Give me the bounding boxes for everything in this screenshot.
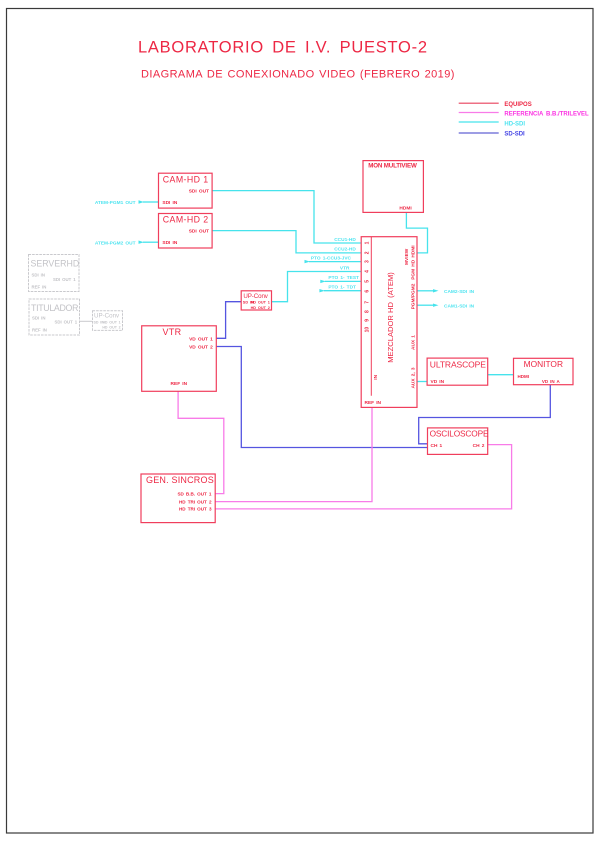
wire HD-SDI PTO 1-CCU3-JVC to ATEM input 3: [305, 255, 362, 263]
svg-text:PTO 1- TDT: PTO 1- TDT: [328, 285, 356, 291]
svg-text:REF IN: REF IN: [365, 400, 382, 406]
svg-text:VD IN A: VD IN A: [542, 379, 561, 384]
svg-text:5: 5: [365, 280, 371, 283]
svg-text:AUX 2, 3: AUX 2, 3: [411, 367, 417, 388]
svg-text:7: 7: [365, 301, 371, 304]
svg-text:HD OUT 1: HD OUT 1: [251, 301, 270, 305]
svg-text:CH 1: CH 1: [431, 443, 443, 449]
svg-text:MVIEW: MVIEW: [404, 248, 410, 265]
equipment MEZCLADOR HD (ATEM): [361, 237, 417, 408]
svg-text:VD IN: VD IN: [431, 379, 445, 385]
svg-text:VD OUT 1: VD OUT 1: [189, 336, 213, 342]
svg-text:CAM-HD 2: CAM-HD 2: [163, 215, 209, 225]
wire HD-SDI ULTRASCOPE to MONITOR HDMI: [488, 374, 514, 376]
equipment CAM-HD 2: [159, 214, 213, 249]
svg-text:ULTRASCOPE: ULTRASCOPE: [430, 360, 486, 370]
wire HD-SDI PTO 1- TEST to ATEM input 5: [320, 275, 361, 283]
wire HD-SDI ATEM PGM to CAM2-SDI IN: [417, 289, 475, 295]
svg-text:HDMI: HDMI: [518, 374, 530, 379]
svg-text:PGM/PGM2: PGM/PGM2: [411, 283, 417, 309]
svg-text:MONITOR: MONITOR: [524, 359, 563, 369]
svg-text:REF IN: REF IN: [32, 327, 47, 332]
wire HD-SDI ATEM PGM2 to CAM1-SDI IN: [417, 303, 475, 309]
equipment UP-Conv (red): [241, 291, 271, 310]
equipment ULTRASCOPE: [427, 358, 488, 385]
svg-text:HD OUT 1: HD OUT 1: [102, 320, 120, 324]
wire SD-SDI VTR VD OUT 1 to UP-Conv SD IN: [216, 302, 241, 339]
svg-text:UP-Conv: UP-Conv: [243, 293, 268, 300]
equipment TITULADOR (unused, gray): [29, 299, 80, 335]
svg-text:EQUIPOS: EQUIPOS: [504, 102, 531, 108]
svg-text:CH 2: CH 2: [473, 443, 485, 449]
wire HD-SDI ATEM PGM HD HDMI to MON MULTIVIEW HDMI: [406, 212, 427, 253]
svg-text:VTR: VTR: [340, 265, 350, 271]
wire HD-SDI CAM1 SDI OUT to ATEM input 1: [212, 191, 361, 243]
svg-text:ATEM-PGM1 OUT: ATEM-PGM1 OUT: [95, 200, 136, 206]
equipment MONITOR: [514, 358, 574, 384]
svg-text:DIAGRAMA DE CONEXIONADO VIDEO: DIAGRAMA DE CONEXIONADO VIDEO (FEBRERO 2…: [141, 68, 455, 80]
svg-text:3: 3: [365, 260, 371, 263]
equipment VTR: [142, 326, 217, 392]
svg-text:SERVERHD: SERVERHD: [31, 259, 80, 269]
svg-text:4: 4: [365, 270, 371, 273]
svg-text:8: 8: [365, 310, 371, 313]
svg-text:CCU1-HD: CCU1-HD: [334, 237, 356, 243]
wire gray TITULADOR SDI OUT 1 to UP-Conv SD IN: [80, 320, 93, 322]
svg-text:VD OUT 2: VD OUT 2: [189, 345, 213, 351]
equipment GEN. SINCROS: [141, 474, 215, 523]
svg-text:2: 2: [365, 251, 371, 254]
wire SD-SDI VTR VD OUT 2 to OSCILOSCOPE CH 1: [216, 347, 427, 448]
svg-text:REF IN: REF IN: [171, 381, 188, 387]
svg-text:REF IN: REF IN: [32, 284, 47, 289]
equipment SERVERHD (unused, gray): [29, 255, 80, 292]
svg-text:UP-Conv: UP-Conv: [94, 313, 120, 320]
wire REFERENCIA GEN.SINCROS HD TRI OUT 3 to OSCILOSCOPE CH 2: [215, 445, 511, 509]
equipment OSCILOSCOPE: [428, 428, 489, 455]
svg-text:SDI IN: SDI IN: [32, 316, 45, 321]
equipment UP-Conv (unused, gray): [93, 311, 123, 331]
svg-text:SDI IN: SDI IN: [162, 200, 177, 206]
svg-text:HD OUT 2: HD OUT 2: [102, 326, 120, 330]
svg-text:LABORATORIO DE I.V. PUESTO-2: LABORATORIO DE I.V. PUESTO-2: [138, 39, 428, 57]
svg-text:HD OUT 2: HD OUT 2: [251, 306, 270, 310]
svg-text:MEZCLADOR HD (ATEM): MEZCLADOR HD (ATEM): [386, 272, 395, 363]
svg-text:CAM-HD 1: CAM-HD 1: [163, 175, 209, 185]
svg-text:CAM2-SDI IN: CAM2-SDI IN: [444, 289, 475, 295]
svg-text:PTO 1- TEST: PTO 1- TEST: [328, 275, 359, 281]
svg-text:VTR: VTR: [163, 327, 182, 337]
svg-text:CAM1-SDI IN: CAM1-SDI IN: [444, 303, 475, 309]
wire HD-SDI ATEM-PGM2 OUT into CAM2 SDI IN: [95, 240, 159, 246]
svg-text:1: 1: [365, 241, 371, 244]
equipment MON MULTIVIEW: [363, 161, 423, 213]
wire REFERENCIA GEN.SINCROS SD B.B. OUT 1 to VTR REF IN: [178, 391, 224, 493]
legend HD-SDI: [459, 121, 526, 127]
wire HD-SDI UP-Conv HD OUT 1 to ATEM input 4 (VTR): [272, 265, 362, 301]
equipment CAM-HD 1: [159, 173, 213, 208]
svg-text:SD B.B. OUT 1: SD B.B. OUT 1: [177, 492, 211, 497]
svg-text:ATEM-PGM2 OUT: ATEM-PGM2 OUT: [95, 240, 136, 246]
svg-text:PTO 1-CCU3-JVC: PTO 1-CCU3-JVC: [311, 255, 352, 261]
svg-text:OSCILOSCOPE: OSCILOSCOPE: [430, 429, 489, 439]
svg-text:SDI OUT 1: SDI OUT 1: [53, 277, 76, 282]
svg-text:TITULADOR: TITULADOR: [31, 303, 78, 313]
svg-text:REFERENCIA B.B./TRILEVEL: REFERENCIA B.B./TRILEVEL: [504, 112, 589, 118]
svg-text:HD TRI OUT 3: HD TRI OUT 3: [179, 507, 212, 512]
svg-text:IN: IN: [373, 374, 379, 379]
wire HD-SDI PTO 1- TDT to ATEM input 6: [319, 285, 361, 293]
svg-text:MON MULTIVIEW: MON MULTIVIEW: [368, 163, 417, 170]
legend EQUIPOS: [459, 102, 532, 108]
svg-text:SDI OUT: SDI OUT: [189, 189, 209, 195]
svg-text:SDI IN: SDI IN: [162, 240, 177, 246]
svg-text:CCU2-HD: CCU2-HD: [334, 246, 356, 252]
wire REFERENCIA GEN.SINCROS HD TRI OUT 2 to ATEM REF IN: [215, 407, 372, 501]
svg-text:PGM HD HDMI: PGM HD HDMI: [411, 245, 417, 280]
svg-text:HD TRI OUT 2: HD TRI OUT 2: [179, 500, 212, 505]
wire HD-SDI CAM2 SDI OUT to ATEM input 2: [212, 231, 361, 253]
svg-text:SDI IN: SDI IN: [32, 272, 45, 277]
wire SD-SDI MONITOR VD IN A loop to OSCILOSCOPE CH 1: [419, 385, 551, 444]
svg-text:SDI OUT 1: SDI OUT 1: [55, 319, 78, 324]
svg-text:AUX 1: AUX 1: [411, 335, 417, 350]
svg-text:GEN. SINCROS: GEN. SINCROS: [146, 475, 214, 485]
svg-text:SD-SDI: SD-SDI: [504, 132, 525, 138]
svg-text:SDI OUT: SDI OUT: [189, 228, 209, 234]
svg-text:HDMI: HDMI: [399, 206, 412, 212]
legend REFERENCIA B.B./TRILEVEL: [459, 112, 589, 118]
svg-text:HD-SDI: HD-SDI: [504, 121, 525, 127]
svg-text:9: 9: [365, 319, 371, 322]
legend SD-SDI: [459, 132, 525, 138]
svg-text:10: 10: [365, 327, 371, 333]
wire HD-SDI ATEM-PGM1 OUT into CAM1 SDI IN: [95, 200, 159, 206]
svg-text:6: 6: [365, 290, 371, 293]
wire HD-SDI ATEM AUX 2 to ULTRASCOPE VD IN: [417, 381, 427, 383]
